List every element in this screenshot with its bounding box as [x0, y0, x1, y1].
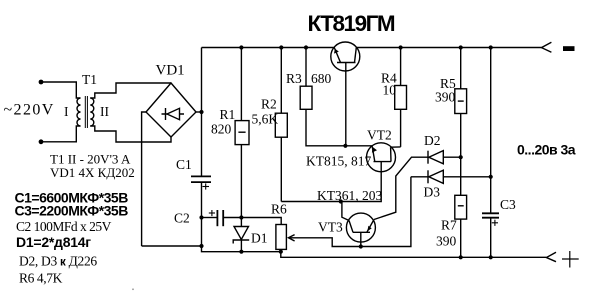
wire R6 bottom stub to rail: [280, 249, 282, 251]
svg-text:T1: T1: [82, 72, 97, 87]
resistor R3: [300, 86, 312, 109]
svg-text:C2 100MFd x 25V: C2 100MFd x 25V: [16, 219, 112, 234]
C2 plus sign: [209, 210, 215, 216]
transformer T1 core: [85, 96, 87, 128]
node VT3 emitter junction: [339, 199, 343, 203]
svg-text:I: I: [64, 104, 69, 119]
resistor R3 column top: [305, 48, 307, 87]
resistor R5: [455, 89, 467, 114]
resistor R2: [275, 113, 287, 137]
stray speck: [132, 288, 134, 290]
svg-text:VD1: VD1: [156, 63, 185, 79]
svg-text:C3=2200МКФ*35В: C3=2200МКФ*35В: [15, 203, 129, 219]
node primary top terminal: [39, 80, 44, 85]
resistor R4: [395, 86, 407, 110]
svg-text:D3: D3: [424, 185, 441, 200]
wire primary bottom lead: [41, 126, 81, 142]
wire R3 bottom to VT2 base line: [306, 109, 372, 146]
svg-text:R1: R1: [220, 107, 236, 122]
node rail R3: [304, 45, 308, 49]
capacitor C3: [482, 213, 499, 217]
transistor VT2 (KT815/817): [367, 143, 401, 172]
resistor R7: [455, 195, 467, 219]
output terminal top (minus): [542, 42, 552, 52]
wire bridge left vertex stub and drop to bottom rail: [142, 112, 146, 246]
VT2 bottom lead: [380, 162, 382, 172]
node rail R5: [459, 45, 463, 49]
resistor R5 column top: [460, 48, 462, 89]
svg-text:10: 10: [383, 83, 397, 98]
transistor KT819GM (U1): [331, 42, 360, 146]
svg-text:КТ819ГМ: КТ819ГМ: [308, 11, 395, 36]
wire C2 right to R6 top: [223, 218, 281, 225]
C1 plus sign: [203, 183, 210, 189]
svg-text:680: 680: [311, 71, 332, 86]
node C3 bottom rail: [489, 255, 493, 259]
wire C1 bottom to bottom rail: [201, 182, 203, 246]
node KT819 base / R3: [343, 144, 347, 148]
node VT3 base junction: [359, 244, 363, 248]
svg-text:R7: R7: [441, 218, 457, 233]
svg-text:R2: R2: [261, 97, 277, 112]
node R6 bottom rail: [279, 250, 283, 254]
wire left column from rail to C1: [201, 48, 203, 177]
wire R2 bottom down to KT361 line: [280, 137, 282, 201]
svg-text:C2: C2: [174, 211, 190, 226]
wire C3 column from rail to C3: [490, 48, 492, 214]
svg-text:KT361, 203: KT361, 203: [317, 188, 382, 203]
wire primary top lead: [41, 82, 81, 98]
wire C3 bottom to bottom rail: [490, 218, 492, 257]
wire secondary top to bridge top vertex: [90, 83, 171, 98]
node D2/R5/R7: [459, 155, 463, 159]
plus symbol: [562, 251, 579, 268]
svg-text:820: 820: [211, 122, 232, 137]
svg-text:D1: D1: [251, 231, 268, 246]
svg-text:VT2: VT2: [367, 128, 392, 143]
KT819 base lead down: [345, 63, 347, 146]
bridge VD1 internal diode: [162, 108, 185, 120]
node C1 bottom rail: [199, 244, 203, 248]
svg-text:0...20в 3а: 0...20в 3а: [517, 142, 576, 158]
node C1-C2: [199, 215, 203, 219]
resistor R4 column top: [400, 48, 402, 86]
wire R1 bottom to node line: [240, 145, 242, 218]
VT2 collector wire to R4: [391, 146, 401, 148]
minus bar symbol: [563, 46, 575, 51]
resistor R1: [235, 121, 249, 145]
svg-text:VT3: VT3: [318, 220, 343, 235]
node R1/D1 top: [239, 215, 243, 219]
svg-text:VD1 4X КД202: VD1 4X КД202: [50, 165, 135, 180]
svg-text:D2, D3 к Д226: D2, D3 к Д226: [19, 254, 97, 269]
wire bridge right vertex stub: [196, 111, 202, 113]
node rail R1: [239, 45, 243, 49]
node rail C3: [489, 45, 493, 49]
wire VT3 emitter to KT361 line: [342, 202, 349, 221]
svg-text:R6 4,7K: R6 4,7K: [19, 271, 63, 286]
node bridge right: [199, 110, 203, 114]
wire R5 bottom through D2 node to R7: [460, 114, 462, 196]
diode D2: [428, 151, 461, 164]
capacitor C1: [191, 176, 211, 182]
potentiometer R6: [276, 225, 287, 250]
node D3/C3: [489, 175, 493, 179]
svg-text:R6: R6: [271, 202, 287, 217]
wire node line y=217.5 from C1 column to C2: [202, 217, 218, 219]
R6 wiper arrow and wire to VT3 base / D3: [288, 177, 411, 247]
transistor VT3 (KT361/203): [346, 213, 375, 246]
VT3 base lead down: [360, 232, 362, 246]
transformer T1 secondary winding II: [90, 98, 94, 126]
node rail R4: [399, 45, 403, 49]
node rail R2: [279, 45, 283, 49]
svg-text:5,6K: 5,6K: [252, 112, 279, 127]
svg-text:D2: D2: [424, 133, 441, 148]
svg-text:390: 390: [436, 234, 457, 249]
wire KT361 line (R2 bottom to VT2 emitter lead): [281, 172, 381, 202]
wire R7 bottom to bottom rail: [460, 219, 462, 257]
svg-text:R3: R3: [286, 71, 302, 86]
svg-text:II: II: [100, 104, 109, 119]
svg-text:C3: C3: [500, 197, 516, 212]
diode D3: [411, 170, 491, 183]
wire R4 bottom to VT2 collector: [400, 109, 402, 147]
wire bottom rail with jogs: [142, 246, 547, 257]
C3 plus sign: [492, 220, 498, 226]
resistor R1 column top: [240, 48, 242, 121]
svg-text:~220V: ~220V: [4, 102, 55, 119]
node D1 bottom rail: [239, 250, 243, 254]
node R7 bottom rail: [459, 255, 463, 259]
wire top rail (negative): [202, 47, 542, 49]
node primary bottom terminal: [39, 139, 44, 144]
transformer T1 primary winding I: [77, 98, 80, 126]
svg-text:390: 390: [435, 90, 456, 105]
resistor R2 column top: [280, 48, 282, 114]
wire VT3 collector to D2 cathode: [374, 157, 428, 219]
svg-text:D1=2*д814г: D1=2*д814г: [16, 234, 91, 250]
output terminal bottom (plus): [546, 252, 556, 261]
bridge rectifier VD1 diamond: [146, 83, 196, 137]
wire secondary bottom to bridge bottom vertex: [90, 126, 171, 142]
capacitor C2: [217, 210, 223, 226]
zener diode D1: [233, 218, 249, 252]
svg-text:KT815, 817: KT815, 817: [306, 154, 371, 169]
svg-text:C1: C1: [176, 157, 192, 172]
